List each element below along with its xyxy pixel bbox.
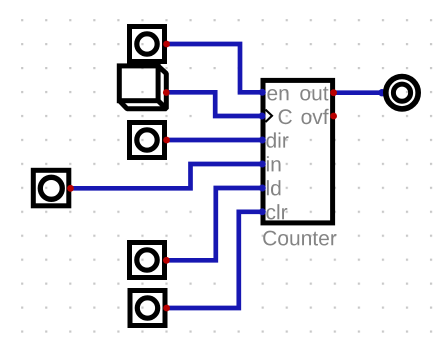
pin label en [267,89,288,101]
input pin P4 [130,243,165,278]
pin label C [279,109,292,124]
wire end blob en [259,89,266,96]
wire W3 (pin P2 to dir) [167,138,262,143]
input pin P1 [130,27,165,62]
clock triangle on pin C [266,110,273,122]
wire end blob clr [259,208,266,215]
wire end blob in [259,161,266,168]
component label Counter [263,231,336,246]
wire end blob C [259,113,266,120]
wire end blob dir [259,137,266,144]
wire end blob ld [259,185,266,192]
wire W1 (pin P1 to en) [167,44,262,92]
input pin P3 [33,170,69,206]
wire W5 (pin P4 to ld) [167,188,262,260]
port dot P4 [163,257,170,264]
wire end blob at output pin O1 [378,89,385,96]
port dot P3 [67,185,74,192]
port dot P2 [163,137,170,144]
pin label out [300,87,328,101]
button B1 [119,66,166,109]
port dot P5 [163,305,170,312]
wire W7 (out to output pin O1) [335,90,382,95]
input pin P2 [130,123,165,158]
port dot B1 [163,89,170,96]
wire W4 (pin P3 to in) [71,164,262,188]
port dot P1 [163,41,170,48]
pin label ovf [302,109,329,124]
wire W6 (pin P5 to clr) [168,212,263,308]
output pin O1 [386,77,418,109]
counter U1 box [263,80,333,223]
pin label ld [267,180,281,195]
port dot out [330,89,337,96]
pin label dir [266,132,288,147]
pin label in [267,156,281,171]
wire W2 (button B1 to C) [166,92,262,116]
pin label clr [266,204,287,219]
input pin P5 [130,291,165,326]
port dot ovf [330,113,337,120]
